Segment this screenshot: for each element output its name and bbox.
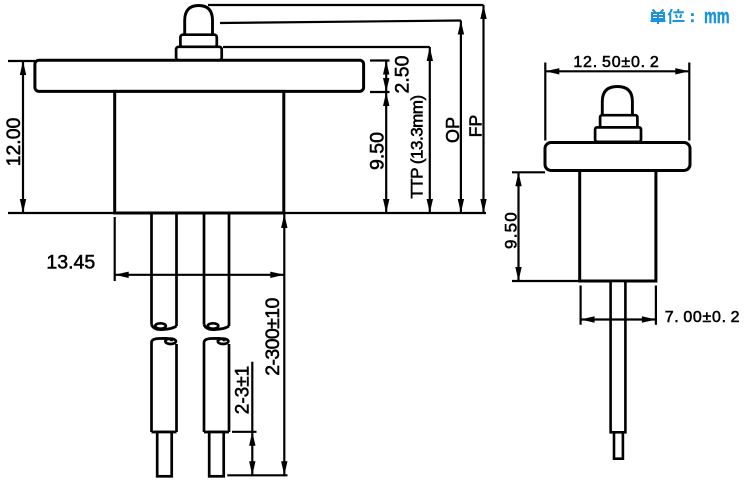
lead sleeve (side view) xyxy=(611,281,626,432)
LED step 2 (side view) xyxy=(595,127,641,141)
left lead wire end xyxy=(157,432,172,476)
dimension OP arrow down xyxy=(458,199,464,213)
dimension 7.00 arrow left xyxy=(581,316,595,322)
bottom extension line (lead end) xyxy=(227,474,287,476)
LED dome (side view) xyxy=(602,87,632,117)
dimension 2-300 line xyxy=(283,214,285,476)
dimension TTP arrow down xyxy=(427,199,433,213)
svg-text:OP: OP xyxy=(443,117,463,143)
dimension 13.45 arrow right xyxy=(270,272,284,278)
body bottom extension line right xyxy=(284,212,486,214)
dimension 2.50 line xyxy=(385,61,387,93)
right lead lower sleeve xyxy=(204,338,229,432)
svg-text:FP: FP xyxy=(466,115,486,137)
body bottom extension (side view) xyxy=(512,280,580,282)
LED dome (front view) xyxy=(185,6,213,36)
dimension 2.50 arrow up xyxy=(383,61,389,75)
unit note 单位：mm (blue) xyxy=(651,9,685,24)
svg-text:2.50: 2.50 xyxy=(391,55,413,93)
dimension TTP line xyxy=(429,47,431,213)
dimension 2-3 arrow up xyxy=(249,432,255,446)
dimension 9.50 arrow down (side) xyxy=(515,267,521,281)
LED step 1 (front view) xyxy=(180,35,216,47)
flange (side view) xyxy=(545,143,690,171)
dimension 2-300 arrow down xyxy=(281,461,287,475)
svg-text:12.00: 12.00 xyxy=(3,117,25,166)
dimension 12.50 arrow left xyxy=(545,68,559,74)
dimension 13.45 extension line left xyxy=(114,217,116,281)
dimension 13.45 line xyxy=(115,274,285,276)
dimension 12.50 extension left xyxy=(544,63,546,141)
dimension 9.50 line (side) xyxy=(517,172,519,281)
svg-text:9.50: 9.50 xyxy=(366,132,388,170)
svg-text:2-300±10: 2-300±10 xyxy=(262,298,284,376)
svg-text:2-3±1: 2-3±1 xyxy=(233,366,254,414)
dimension TTP arrow up xyxy=(427,47,433,61)
left lead lower sleeve xyxy=(152,338,177,432)
dimension 12.50 line xyxy=(545,70,689,72)
dimension 12.00 arrow down xyxy=(20,199,26,213)
svg-text:mm: mm xyxy=(704,4,730,27)
dimension 7.00 arrow right xyxy=(642,316,656,322)
dimension 7.00 line xyxy=(581,318,656,320)
dimension 2.50 arrow down xyxy=(383,78,389,92)
unit note colon xyxy=(691,13,694,22)
leader line OP xyxy=(220,21,461,24)
right lead wire end xyxy=(209,432,224,476)
svg-text:7. 00±0. 2: 7. 00±0. 2 xyxy=(665,309,741,326)
body bottom extension line left xyxy=(8,212,115,214)
body (front view) xyxy=(115,91,284,213)
dimension 12.50 arrow right xyxy=(675,68,689,74)
leader line FP xyxy=(208,4,484,6)
dimension 7.00 extension right xyxy=(655,286,657,325)
dimension 9.50 arrow up (front) xyxy=(383,92,389,106)
dimension 2-300 arrow up xyxy=(281,214,287,228)
right lead upper sleeve xyxy=(204,214,229,330)
dimension 2.50 tick bottom xyxy=(370,91,390,93)
LED step 2 (front view) xyxy=(176,47,222,61)
dimension 2.50 tick top xyxy=(370,59,390,61)
dimension 12.00 line xyxy=(22,61,24,213)
dimension 9.50 arrow up (side) xyxy=(515,172,521,186)
dimension OP arrow up xyxy=(458,21,464,35)
body (side view) xyxy=(580,171,656,282)
dimension OP line xyxy=(460,21,462,214)
dimension FP arrow up xyxy=(480,5,486,19)
lead wire end (side view) xyxy=(614,432,623,458)
flange (front view) xyxy=(35,60,364,91)
dimension 12.50 extension right xyxy=(688,63,690,141)
dimension 13.45 arrow left xyxy=(115,272,129,278)
dimension 12.00 extension tick top xyxy=(8,60,35,62)
flange bottom extension (side view) xyxy=(512,171,545,173)
leader line TTP xyxy=(223,46,430,48)
svg-text:TTP (13.3mm): TTP (13.3mm) xyxy=(407,95,426,198)
dimension 2-3 tick xyxy=(232,431,257,433)
svg-text:12. 50±0. 2: 12. 50±0. 2 xyxy=(573,54,659,71)
dimension 2-3 leader line xyxy=(251,362,253,476)
dimension FP arrow down xyxy=(480,199,486,213)
dimension 9.50 line (front) xyxy=(385,92,387,213)
svg-text:13.45: 13.45 xyxy=(46,252,95,274)
dimension 7.00 extension left xyxy=(579,286,581,325)
dimension FP line xyxy=(482,5,484,213)
dimension 12.00 arrow up xyxy=(20,61,26,75)
LED step 1 (side view) xyxy=(600,115,637,127)
dimension 2-3 arrow down xyxy=(249,461,255,475)
svg-text:9.50: 9.50 xyxy=(501,211,520,249)
dimension 9.50 arrow down (front) xyxy=(383,199,389,213)
left lead upper sleeve xyxy=(152,214,177,330)
